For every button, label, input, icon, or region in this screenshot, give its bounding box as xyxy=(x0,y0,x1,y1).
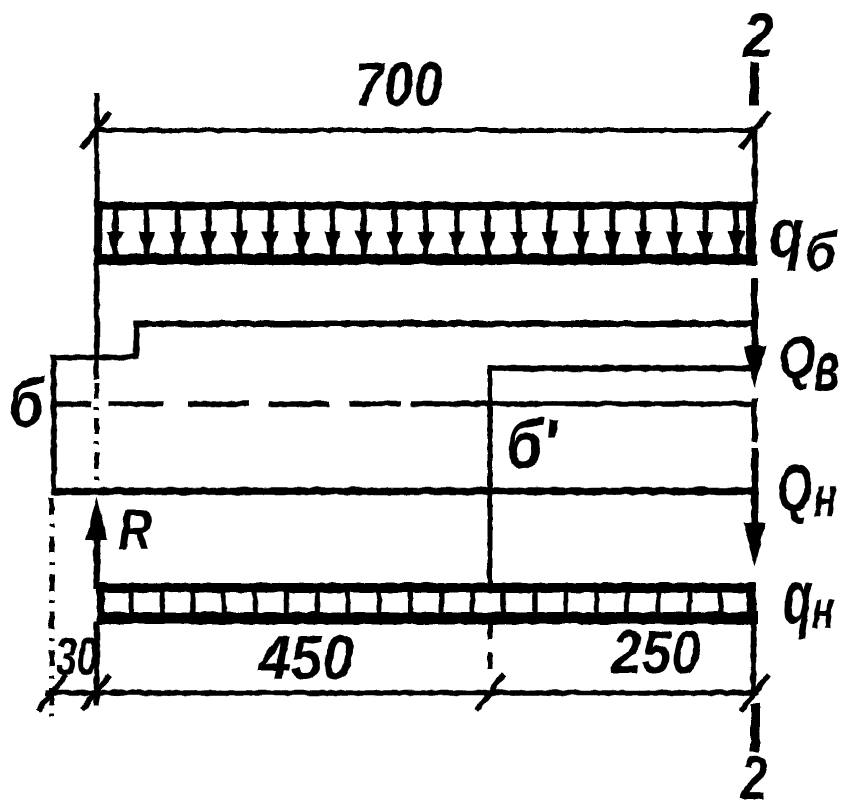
svg-text:30: 30 xyxy=(55,625,97,685)
svg-text:в: в xyxy=(813,328,838,406)
svg-text:Q: Q xyxy=(776,451,812,525)
svg-text:450: 450 xyxy=(257,622,353,692)
svg-text:2: 2 xyxy=(739,742,766,803)
svg-text:н: н xyxy=(811,578,834,638)
svg-text:2: 2 xyxy=(741,1,773,69)
svg-text:q: q xyxy=(768,193,803,272)
svg-text:б: б xyxy=(8,364,44,441)
svg-text:q: q xyxy=(782,553,812,639)
svg-text:б: б xyxy=(804,221,837,283)
svg-text:б′: б′ xyxy=(505,403,558,482)
svg-text:700: 700 xyxy=(354,50,442,119)
svg-text:н: н xyxy=(813,465,836,529)
svg-text:R: R xyxy=(118,498,151,563)
svg-text:Q: Q xyxy=(778,323,814,390)
svg-text:250: 250 xyxy=(610,619,700,686)
